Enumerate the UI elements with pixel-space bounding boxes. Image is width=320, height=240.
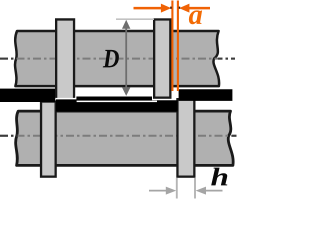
- bottom shaft: [16, 111, 234, 165]
- h extension line right: [194, 178, 196, 199]
- centerline bottom shaft (dark ends outside shaft): [0, 135, 237, 137]
- label a: [189, 10, 202, 24]
- orange left arrow of a: [134, 7, 165, 10]
- centerline top shaft (dark ends outside shaft): [0, 58, 235, 60]
- D extension line: [116, 18, 154, 20]
- disc B2 (bottom-right disc): [177, 99, 194, 176]
- arrow tip dark pixel left: [170, 7, 172, 9]
- label D: [103, 50, 119, 67]
- sheet middle piece: [56, 97, 178, 112]
- disc T1 (top-left disc): [56, 19, 74, 97]
- centerline top shaft (on-shaft grey): [0, 58, 235, 60]
- h right arrow: [205, 190, 223, 192]
- orange right arrow of a: [187, 7, 211, 10]
- sheet left piece: [0, 89, 55, 102]
- top shaft: [15, 31, 219, 86]
- white sliver in middle piece: [77, 101, 157, 103]
- orange extension line right: [177, 1, 179, 92]
- D arrow up: [122, 20, 130, 29]
- h left arrow: [149, 190, 167, 192]
- D arrow down: [122, 87, 130, 96]
- arrow tip dark pixel right: [179, 7, 181, 9]
- sheet right piece: [179, 89, 233, 101]
- D dimension line: [125, 24, 127, 90]
- label h: [211, 168, 227, 186]
- orange extension line left: [171, 1, 173, 92]
- centerline bottom shaft (on-shaft grey): [0, 135, 237, 137]
- h extension line left: [176, 178, 178, 199]
- disc T2 (top-right disc): [154, 19, 170, 97]
- disc B1 (bottom-left disc): [41, 102, 56, 177]
